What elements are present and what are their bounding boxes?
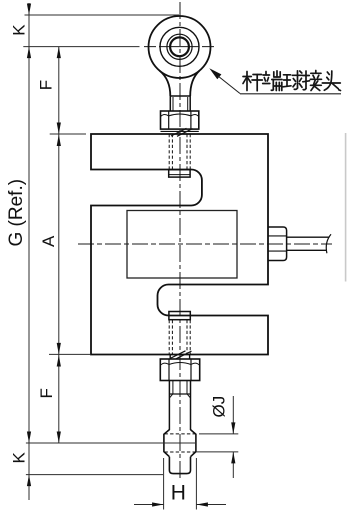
svg-text:G (Ref.): G (Ref.): [6, 179, 27, 247]
ext line oJ bottom: [196, 451, 238, 453]
ext line H left: [163, 458, 165, 510]
middle gauge square: [127, 211, 237, 279]
arrow G bottom down: [27, 432, 31, 444]
char qiu (jade radical + qiu): [283, 71, 302, 90]
stud thread outer right: [189, 96, 191, 111]
ext line block top: [50, 133, 86, 135]
ext line ball center: [26, 442, 196, 444]
hidden stud thread in top block (dashed): [169, 134, 190, 170]
stud thread inner left: [172, 97, 174, 111]
blind hole bottom top block: [169, 170, 190, 177]
arrow A bottom down: [57, 343, 61, 355]
centerline horizontal (eye center): [144, 46, 214, 48]
char jie (hand radical + jie): [303, 71, 322, 91]
svg-text:ØJ: ØJ: [210, 396, 229, 418]
rod end bore circle: [170, 37, 189, 56]
rod end housing outline: [149, 16, 211, 78]
stud thread inner right: [187, 97, 189, 111]
arrow H right: [196, 502, 208, 506]
ball seat octagon: [164, 430, 196, 457]
leader line: [218, 76, 240, 94]
svg-text:F: F: [37, 388, 56, 398]
cable bottom line: [287, 249, 327, 251]
svg-text:K: K: [10, 452, 29, 464]
dim line oJ lower: [232, 452, 234, 478]
cable top line: [287, 236, 330, 238]
hex nut upper: [161, 111, 199, 131]
label underline: [240, 93, 341, 95]
arrow oJ up: [231, 452, 235, 464]
thread slash marks bottom joint: [170, 351, 186, 359]
centerline vertical (main axis): [179, 2, 181, 481]
rod end bore chamfer circle: [167, 34, 192, 59]
arrow K bottom up: [27, 475, 31, 487]
arrow A top up: [57, 135, 61, 147]
ext line H right: [195, 458, 197, 510]
arrow K top down: [27, 4, 31, 16]
ext line oJ top: [199, 433, 238, 435]
table border fragment right edge: [345, 133, 347, 282]
arrowheads: [27, 4, 236, 507]
cable gland hex fitting: [268, 227, 286, 261]
svg-text:H: H: [171, 482, 186, 505]
stud below bottom block: [169, 355, 171, 360]
ext line block bottom: [49, 353, 90, 355]
chinese label 杆端球接头 (drawn strokes): [243, 71, 341, 91]
rod end shank flare left: [160, 71, 171, 96]
lower rod upper section: [168, 394, 170, 430]
arrow oJ down: [231, 422, 235, 434]
arrow H left: [152, 502, 164, 506]
char tou (dots + big): [322, 71, 340, 91]
leader arrow to rod end: [209, 68, 221, 79]
hidden stud thread in bottom block (dashed): [169, 320, 190, 355]
blind hole bottom stud (bottom block): [169, 312, 190, 320]
char gan (wood radical + gan): [243, 72, 262, 91]
ext line eye top: [25, 14, 180, 16]
dim line inner F A F: [58, 47, 60, 443]
svg-text:K: K: [9, 24, 28, 36]
lower rod bottom section: [169, 457, 190, 474]
ext line eye center: [23, 46, 139, 48]
dim line H left: [134, 504, 164, 506]
ball hidden edges dashed: [165, 433, 196, 435]
arrow F top up: [57, 47, 61, 59]
S load cell body outline: [91, 134, 268, 355]
thread section below lower nut: [169, 381, 190, 398]
centerline horizontal (body / cable axis): [78, 243, 332, 245]
arrow F top bottom down: [57, 123, 61, 135]
rod end shank flare right: [190, 71, 199, 96]
ext line rod bottom: [26, 474, 163, 476]
dim line oJ upper: [232, 396, 234, 434]
arrow F bottom down: [57, 432, 61, 444]
dim line outer K G: [28, 3, 30, 500]
arrow G top up: [27, 47, 31, 59]
dim line H right: [196, 504, 226, 506]
thread slash marks top joint: [171, 128, 187, 136]
svg-text:A: A: [39, 235, 58, 247]
char duan (stand radical + duan): [263, 71, 282, 91]
rod end ball circle: [160, 27, 199, 66]
svg-text:F: F: [37, 80, 56, 90]
cable break mark: [326, 234, 331, 253]
stud thread outer left: [169, 96, 171, 111]
arrow F bottom top up: [57, 355, 61, 367]
hex nut lower: [160, 359, 199, 381]
shank shoulder line: [170, 95, 190, 97]
